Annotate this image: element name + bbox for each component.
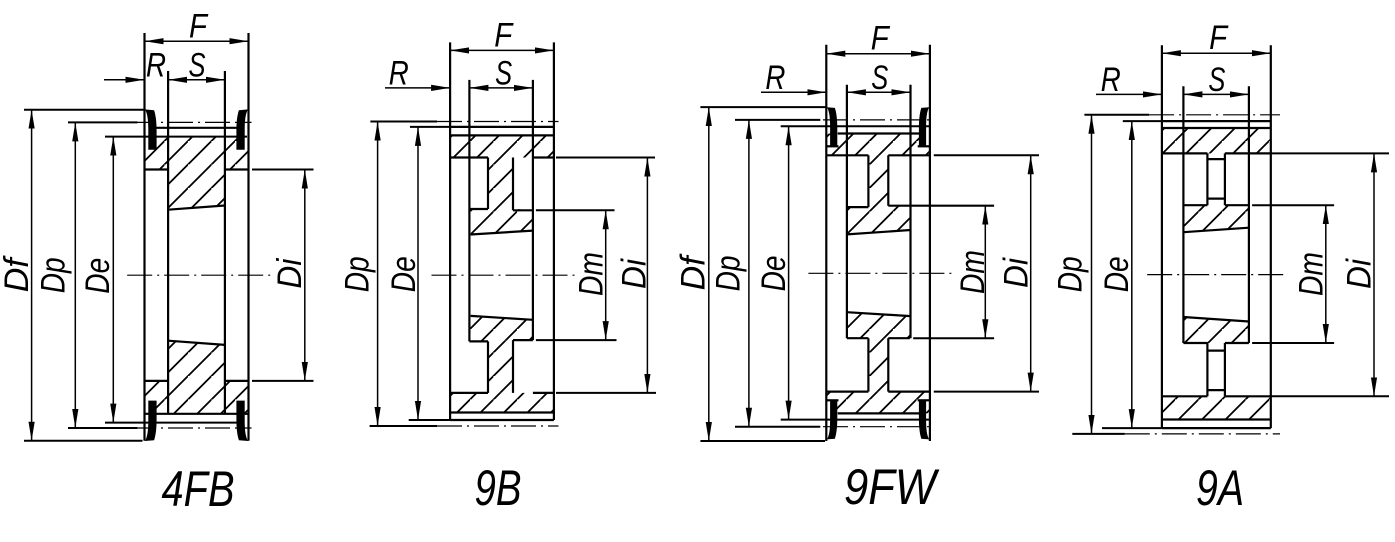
extension Dm bottom	[1252, 342, 1334, 344]
rim inner line bottom	[826, 391, 868, 393]
svg-text:F: F	[871, 20, 891, 58]
hub face left line	[468, 80, 470, 342]
pitch line Dp top (dash-dot)	[131, 121, 252, 123]
hatch rim-hub left top	[145, 137, 169, 170]
flange ledge bottom-right	[918, 399, 930, 401]
hub step top left	[1183, 204, 1207, 206]
pitch line Dp top (dash-dot)	[823, 119, 934, 121]
dimension F	[1162, 52, 1271, 54]
clamp screw head line bottom	[1207, 389, 1225, 391]
flange bottom-right	[919, 400, 929, 439]
web wall right top	[512, 158, 514, 211]
extension Df top	[24, 109, 145, 111]
dimension S	[847, 91, 911, 93]
hub face right line	[1248, 86, 1250, 343]
flange top-left	[145, 109, 157, 149]
extension Dm top	[536, 209, 615, 211]
hatch hub top (taper bore)	[1183, 205, 1249, 232]
extension Di top	[1271, 152, 1389, 154]
dimension De	[112, 137, 114, 423]
left face line	[449, 42, 451, 420]
hatch rim band top	[450, 135, 554, 157]
svg-text:R: R	[1101, 61, 1121, 99]
hatch rim-hub right bottom	[225, 381, 249, 414]
tooth root line top (De extension)	[105, 136, 247, 138]
hatch web bottom	[488, 341, 513, 393]
extension Dp bottom	[1072, 433, 1125, 435]
outside diameter line bottom (De)	[450, 419, 554, 421]
svg-text:Dm: Dm	[573, 252, 611, 296]
taper bore line top	[847, 230, 911, 234]
hatch rim band bottom	[450, 393, 554, 413]
taper bore line bottom	[168, 341, 225, 345]
flange top-right	[919, 107, 929, 146]
hatch hub center bottom (taper bore)	[168, 341, 225, 414]
pitch line Dp top (dash-dot)	[437, 121, 559, 123]
outside diameter line top (De)	[1162, 120, 1271, 122]
extension Df top	[700, 106, 826, 108]
hatch web top	[868, 155, 888, 206]
extension Dp top	[68, 121, 137, 123]
dimension S	[168, 79, 225, 81]
hatch hub bottom (taper bore)	[469, 316, 533, 342]
svg-text:Df: Df	[675, 253, 713, 291]
svg-text:Dm: Dm	[1292, 252, 1330, 296]
right face line	[247, 33, 249, 441]
extension De bottom	[1102, 427, 1162, 429]
hub step bottom left	[847, 337, 869, 339]
tooth root line bottom	[450, 411, 554, 413]
svg-text:S: S	[495, 54, 512, 92]
extension Dp bottom	[735, 426, 820, 428]
outside diameter line top (De)	[450, 126, 554, 128]
hatch web bottom	[868, 338, 888, 391]
svg-text:Di: Di	[1341, 258, 1379, 289]
web wall left top	[867, 155, 869, 207]
pitch line Dp top (dash-dot)	[1149, 114, 1280, 116]
svg-text:4FB: 4FB	[162, 461, 235, 517]
dimension Df	[708, 107, 710, 441]
svg-text:Dp: Dp	[1052, 256, 1090, 292]
flange bottom-right	[236, 401, 248, 441]
svg-text:R: R	[765, 59, 785, 97]
extension De top	[1123, 120, 1162, 122]
extension Df bottom	[24, 440, 143, 442]
tooth tip line top (De)	[781, 125, 930, 127]
hub face right line	[909, 85, 911, 338]
svg-text:De: De	[755, 255, 793, 291]
hub step top right	[1225, 204, 1249, 206]
dimension Df	[31, 110, 33, 441]
hatch hub bottom (taper bore)	[1183, 317, 1249, 343]
clamp screw end line top	[1207, 198, 1225, 200]
hatch hub top (taper bore)	[847, 206, 911, 235]
hub step bottom right	[1225, 342, 1249, 344]
svg-text:S: S	[1208, 61, 1225, 99]
rim inner line bottom	[1162, 395, 1208, 397]
hatch rim-hub right top	[225, 137, 249, 170]
hub step bottom right	[513, 339, 533, 341]
svg-text:R: R	[389, 54, 409, 92]
centerline axis	[127, 274, 273, 276]
extension Di bottom	[556, 392, 656, 394]
centerline axis	[808, 272, 955, 274]
hatch hub bottom (taper bore)	[847, 312, 911, 338]
hatch rim-hub left bottom	[145, 381, 169, 414]
extension Di bottom	[1271, 395, 1389, 397]
tooth root line top	[450, 134, 554, 136]
svg-text:F: F	[1209, 19, 1229, 57]
extension Dp bottom	[68, 427, 137, 429]
dimension Dm	[984, 206, 986, 339]
svg-text:F: F	[189, 7, 209, 45]
clamp screw wall left bottom	[1206, 343, 1208, 396]
tooth tip line bottom (De)	[781, 419, 930, 421]
rim inner line top	[450, 156, 488, 158]
pitch line Dp bottom (dash-dot)	[823, 426, 934, 428]
dimension De	[788, 126, 790, 419]
rim inner line top	[826, 154, 868, 156]
extension Dp top	[1084, 114, 1149, 116]
dimension F	[450, 49, 554, 51]
dimension Dp	[748, 120, 750, 427]
svg-text:F: F	[494, 16, 514, 54]
extension Di bottom	[252, 380, 314, 382]
web wall left bottom	[487, 341, 489, 393]
svg-text:Df: Df	[0, 255, 36, 293]
extension Di top	[252, 169, 314, 171]
svg-text:Di: Di	[997, 257, 1035, 288]
hub step bottom left	[469, 340, 488, 342]
dimension S	[1183, 93, 1249, 95]
web wall right bottom	[512, 340, 514, 393]
right face line	[553, 42, 555, 420]
hub step top right	[513, 209, 533, 211]
taper bore line bottom	[847, 312, 911, 316]
flange ledge top-right	[918, 145, 930, 147]
dimension Di	[646, 158, 648, 393]
hatch rim band top	[826, 134, 930, 156]
rim inner line top	[1162, 152, 1208, 154]
bush face left line	[167, 71, 169, 414]
bush face right line	[224, 71, 226, 414]
dimension De	[1131, 121, 1133, 428]
pitch line Dp bottom (dash-dot)	[437, 425, 559, 427]
extension Df bottom	[700, 440, 825, 442]
tooth tip line top	[157, 127, 237, 129]
dimension Dm	[605, 210, 607, 340]
svg-text:Dm: Dm	[954, 250, 992, 294]
hatch rim band bottom	[1162, 396, 1271, 419]
hatch rim band top	[1162, 128, 1271, 153]
pitch line Dp bottom (dash-dot)	[1125, 433, 1280, 435]
hatch rim band bottom	[826, 392, 930, 414]
taper bore line top	[471, 231, 533, 235]
svg-text:Di: Di	[271, 257, 309, 288]
extension Dm bottom	[536, 339, 617, 341]
svg-text:S: S	[189, 46, 206, 84]
rim inner step bottom (Di level)	[145, 380, 169, 382]
web wall right bottom	[887, 338, 889, 391]
hub face left line	[1182, 86, 1184, 343]
left face line	[1161, 45, 1163, 428]
svg-text:De: De	[385, 256, 423, 292]
extension Dm top	[1252, 204, 1334, 206]
left face line	[825, 45, 827, 441]
dimension F	[145, 40, 249, 42]
dimension R	[1096, 93, 1162, 95]
svg-text:Dp: Dp	[710, 255, 748, 291]
extension Dp top	[370, 121, 437, 123]
right face line	[1270, 45, 1272, 428]
extension Di top	[556, 157, 655, 159]
extension De bottom	[409, 419, 450, 421]
dimension Dm	[1325, 205, 1327, 343]
hub face left line	[846, 85, 848, 338]
dimension R	[104, 79, 145, 81]
svg-text:9FW: 9FW	[844, 459, 940, 515]
centerline axis	[432, 274, 578, 276]
tooth root line top	[838, 132, 920, 134]
dimension R	[385, 87, 450, 89]
hub step top right and Dm extension	[888, 205, 994, 207]
svg-text:Dp: Dp	[338, 256, 376, 292]
extension De top	[410, 126, 450, 128]
svg-text:Di: Di	[616, 258, 654, 289]
centerline axis	[1147, 274, 1286, 276]
clamp screw wall left top	[1206, 153, 1208, 205]
clamp screw wall right top	[1224, 153, 1226, 205]
web wall left top	[487, 158, 489, 210]
taper bore line bottom	[471, 316, 533, 320]
tooth root line bottom	[838, 412, 920, 414]
svg-text:S: S	[871, 59, 888, 97]
taper bore line top	[168, 206, 225, 210]
dimension S	[469, 87, 533, 89]
hub face right line	[532, 80, 534, 340]
taper bore line bottom	[1183, 317, 1249, 322]
right face line	[929, 45, 931, 441]
dimension De	[417, 127, 419, 420]
left face line	[143, 33, 145, 441]
taper bore line top	[1183, 228, 1249, 233]
svg-text:9A: 9A	[1196, 460, 1244, 516]
svg-text:R: R	[146, 46, 166, 84]
flange top-right	[236, 109, 248, 149]
extension Dm bottom	[913, 337, 994, 339]
dimension R	[761, 91, 826, 93]
tooth root line bottom	[145, 413, 249, 415]
hub step top left	[469, 208, 488, 210]
dimension Dp	[1091, 115, 1093, 434]
flange top-left	[827, 107, 837, 146]
svg-text:9B: 9B	[475, 460, 522, 516]
tooth root line bottom	[1162, 418, 1271, 420]
rim inner line bottom	[450, 392, 488, 394]
flange ledge top-left	[826, 145, 838, 147]
extension Dp bottom	[370, 425, 437, 427]
hub step top left	[847, 206, 869, 208]
extension Di bottom	[934, 391, 1039, 393]
outside diameter line bottom (De)	[1162, 427, 1271, 429]
clamp screw end line bottom	[1207, 350, 1225, 352]
dimension F	[826, 53, 930, 55]
hatch hub top (taper bore)	[469, 209, 533, 234]
flange bottom-left	[827, 400, 837, 439]
clamp screw wall right bottom	[1224, 343, 1226, 396]
dimension Di	[1373, 153, 1375, 396]
hub step bottom right	[888, 337, 910, 339]
flange ledge bottom-left	[826, 399, 838, 401]
hatch web top	[488, 158, 513, 210]
web wall right top	[887, 155, 889, 205]
extension Dp top	[735, 119, 820, 121]
tooth root line top	[1162, 127, 1271, 129]
dimension Di	[1030, 155, 1032, 391]
svg-text:De: De	[1098, 256, 1136, 292]
clamp screw head line top	[1207, 158, 1225, 160]
dimension Dp	[377, 122, 379, 427]
svg-text:Dp: Dp	[35, 257, 73, 293]
dimension Dp	[74, 122, 76, 428]
tooth tip line bottom (De extension)	[105, 422, 237, 424]
hub step bottom left	[1183, 342, 1207, 344]
web wall left bottom	[867, 338, 869, 391]
extension Di top	[934, 154, 1039, 156]
flange bottom-left	[145, 401, 157, 441]
svg-text:De: De	[79, 258, 117, 294]
pitch line Dp bottom (dash-dot)	[131, 427, 252, 429]
hatch hub center top (taper bore)	[168, 137, 225, 210]
rim inner step top (Di level)	[145, 168, 169, 170]
dimension Di	[304, 170, 306, 381]
